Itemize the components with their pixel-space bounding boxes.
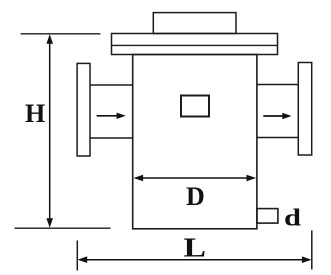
dimension H extension line bottom [15, 227, 111, 229]
label L [184, 233, 207, 263]
top cap rectangle [153, 13, 236, 34]
dimension L line [78, 256, 312, 263]
right pipe top wall [257, 84, 298, 86]
svg-text:D: D [186, 182, 205, 211]
top flange plate [112, 34, 278, 55]
left flow arrow [97, 113, 126, 119]
drain stub d [257, 209, 278, 224]
display window rectangle [181, 96, 209, 117]
left pipe top wall [90, 84, 133, 86]
left flange [77, 63, 90, 156]
main body [133, 55, 257, 229]
svg-text:H: H [25, 99, 45, 128]
svg-text:d: d [284, 206, 302, 232]
label H [25, 99, 45, 128]
dimension H line [46, 34, 53, 228]
label D [186, 182, 205, 211]
right flow arrow [263, 113, 291, 119]
top flange plate inner line [112, 44, 278, 46]
dimension L right tick [311, 230, 313, 269]
right pipe bottom wall [257, 137, 298, 139]
right flange [298, 63, 311, 156]
svg-text:L: L [184, 233, 207, 263]
dimension D line [134, 175, 257, 182]
left pipe bottom wall [90, 137, 133, 139]
dimension H extension line top [21, 33, 101, 35]
dimension L left tick [76, 241, 78, 271]
label d [284, 206, 302, 232]
